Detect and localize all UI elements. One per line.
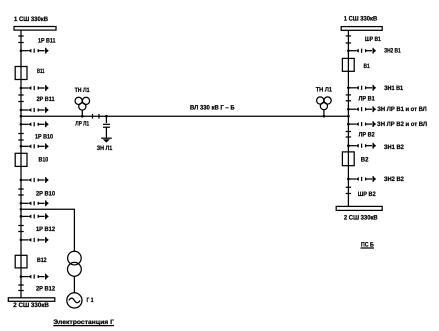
disconnector ЛР В2 contacts <box>346 131 351 133</box>
svg-text:ЗН ЛР В1 и от ВЛ: ЗН ЛР В1 и от ВЛ <box>377 106 427 113</box>
earthing switch ЗН1 В1 <box>347 85 376 91</box>
disconnector ШР В1 contacts <box>346 35 351 37</box>
earthing switch below 1Р В12 <box>20 237 49 243</box>
wire: left column vertical <box>20 30 22 298</box>
svg-text:2 СШ 330кВ: 2 СШ 330кВ <box>344 215 378 222</box>
wire: right column vertical <box>347 30 349 206</box>
node ТН Л1 left junction <box>81 115 84 118</box>
busbar 1 СШ 330кВ (left top) <box>14 27 56 31</box>
svg-text:В1: В1 <box>364 63 371 70</box>
svg-text:1 СШ 330кВ: 1 СШ 330кВ <box>14 16 48 23</box>
wire: ТН Л1 left stub <box>81 110 83 116</box>
wire: ТН Л1 right stub <box>323 110 325 117</box>
disconnector 2Р В11 contacts <box>18 94 23 96</box>
earthing switch above 1Р В12 <box>20 214 49 220</box>
svg-text:1Р В11: 1Р В11 <box>38 37 56 44</box>
disconnector ЛР Л1 contacts <box>92 114 94 119</box>
svg-text:ШР В2: ШР В2 <box>358 191 376 198</box>
wire: generator branch horizontal <box>21 209 74 251</box>
busbar 2 СШ 330кВ (left bottom) <box>8 298 55 302</box>
earthing switch above 2Р В11 <box>20 85 49 91</box>
generator Г1 <box>67 293 82 308</box>
svg-text:В10: В10 <box>39 156 49 163</box>
wire: transformer to generator <box>73 276 75 293</box>
node: right column to line ВЛ <box>347 115 350 118</box>
disconnector 2Р В10 contacts <box>18 188 23 190</box>
earthing switch ЗН1 В2 <box>347 143 376 149</box>
earthing switch above 1Р В10 <box>20 121 49 127</box>
earthing switch ЗН ЛР В2 <box>347 121 376 127</box>
earthing switch ЗН Л1 <box>101 115 112 143</box>
breaker В10 <box>15 153 27 166</box>
svg-text:ЗН ЛР В2 и от ВЛ: ЗН ЛР В2 и от ВЛ <box>377 121 427 128</box>
earthing switch below 2Р В10 <box>20 200 49 206</box>
earthing switch above 2Р В10 <box>20 177 49 183</box>
svg-text:ТН Л1: ТН Л1 <box>316 87 333 94</box>
node ТН Л1 right junction <box>323 115 326 118</box>
svg-text:Электростанция Г: Электростанция Г <box>53 319 114 326</box>
svg-text:Г 1: Г 1 <box>87 297 94 304</box>
disconnector 2Р В12 contacts <box>18 284 23 286</box>
earthing switch of 1Р В11 <box>20 48 49 54</box>
earthing switch ЗН2 В1 <box>347 48 376 54</box>
svg-text:ЗН2 В1: ЗН2 В1 <box>384 48 401 55</box>
voltage transformer ТН Л1 (left) <box>75 97 90 110</box>
svg-text:1 СШ 330кВ: 1 СШ 330кВ <box>344 15 378 22</box>
svg-text:В11: В11 <box>37 68 45 75</box>
earthing switch ЗН2 В2 <box>347 176 376 182</box>
svg-text:ЗН2 В2: ЗН2 В2 <box>384 176 404 183</box>
earthing switch below В12 <box>20 274 49 280</box>
svg-text:2Р В12: 2Р В12 <box>36 286 55 293</box>
svg-text:ШР В1: ШР В1 <box>365 36 381 43</box>
voltage transformer ТН Л1 (right) <box>317 97 332 110</box>
svg-text:ЛР Л1: ЛР Л1 <box>75 121 89 128</box>
svg-text:В12: В12 <box>37 257 47 264</box>
svg-text:ПС Б: ПС Б <box>361 241 374 248</box>
disconnector ЛР В1 contacts <box>346 94 351 96</box>
busbar 2 СШ 330кВ (right bottom) <box>336 206 382 210</box>
svg-text:2Р В11: 2Р В11 <box>37 96 55 103</box>
disconnector ШР В2 contacts <box>346 186 351 188</box>
underline ПС Б <box>361 247 375 249</box>
earthing switch ЗН ЛР В1 <box>347 106 376 112</box>
transformer (generator step-up) <box>68 251 82 265</box>
svg-text:1Р В12: 1Р В12 <box>36 226 55 233</box>
svg-text:ЗН1 В1: ЗН1 В1 <box>384 85 403 92</box>
disconnector 1Р В11 contacts <box>18 35 23 37</box>
breaker В2 <box>342 152 354 166</box>
node: generator branch <box>20 208 23 211</box>
svg-text:1Р В10: 1Р В10 <box>35 134 53 141</box>
underline Электростанция Г <box>53 325 114 327</box>
svg-text:ЛР В1: ЛР В1 <box>359 95 376 102</box>
svg-text:ВЛ 330 кВ Г – Б: ВЛ 330 кВ Г – Б <box>190 104 235 111</box>
svg-text:2 СШ 330кВ: 2 СШ 330кВ <box>13 302 49 309</box>
svg-text:ЛР В2: ЛР В2 <box>359 132 376 139</box>
earthing switch below 2Р В11 <box>20 107 49 113</box>
svg-text:2Р В10: 2Р В10 <box>36 190 55 197</box>
svg-text:ТН Л1: ТН Л1 <box>75 87 90 94</box>
breaker В1 <box>342 58 354 71</box>
earthing switch below 1Р В10 <box>20 143 49 149</box>
breaker В12 <box>15 255 27 268</box>
node: left column to line ВЛ <box>20 115 23 118</box>
svg-text:В2: В2 <box>361 157 369 164</box>
svg-text:ЗН1 В2: ЗН1 В2 <box>384 144 404 151</box>
wire: overhead line ВЛ 330 кВ Г - Б <box>21 115 348 117</box>
breaker В11 <box>15 67 27 80</box>
disconnector 1Р В10 contacts <box>18 133 23 135</box>
svg-text:ЗН Л1: ЗН Л1 <box>97 145 113 152</box>
disconnector 1Р В12 contacts <box>18 225 23 227</box>
busbar 1 СШ 330кВ (right top) <box>341 27 382 31</box>
